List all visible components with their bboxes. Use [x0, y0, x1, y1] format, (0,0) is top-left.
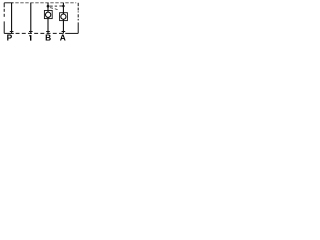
tick P port: [10, 31, 14, 33]
check valve V2 body: [60, 13, 68, 21]
check valve V1 body: [44, 11, 52, 19]
envelope left edge (dashed): [3, 3, 5, 34]
envelope bottom edge (dashed): [4, 32, 78, 34]
label port T (degraded to 1-like stem): [29, 35, 31, 41]
wire pilot dashed line B to A: [50, 5, 63, 7]
tick B port: [46, 31, 50, 33]
tick T port: [29, 31, 33, 33]
wire pilot dashed diagonal to valve 2: [50, 8, 58, 10]
node junction dot on B line: [47, 5, 50, 8]
svg-text:B: B: [45, 33, 51, 42]
svg-text:P: P: [7, 33, 13, 42]
check valve V1 ball: [46, 12, 51, 17]
svg-text:A: A: [60, 33, 66, 42]
tick A port: [62, 31, 66, 33]
node junction dot on A line: [62, 5, 65, 8]
envelope top edge (dashed): [4, 2, 76, 4]
wire P line: [11, 3, 13, 34]
envelope right edge (dashed): [77, 3, 79, 34]
check valve V2 ball: [61, 14, 66, 19]
wire T line: [30, 3, 32, 34]
wire B line: [47, 3, 49, 34]
wire A line: [62, 3, 64, 34]
